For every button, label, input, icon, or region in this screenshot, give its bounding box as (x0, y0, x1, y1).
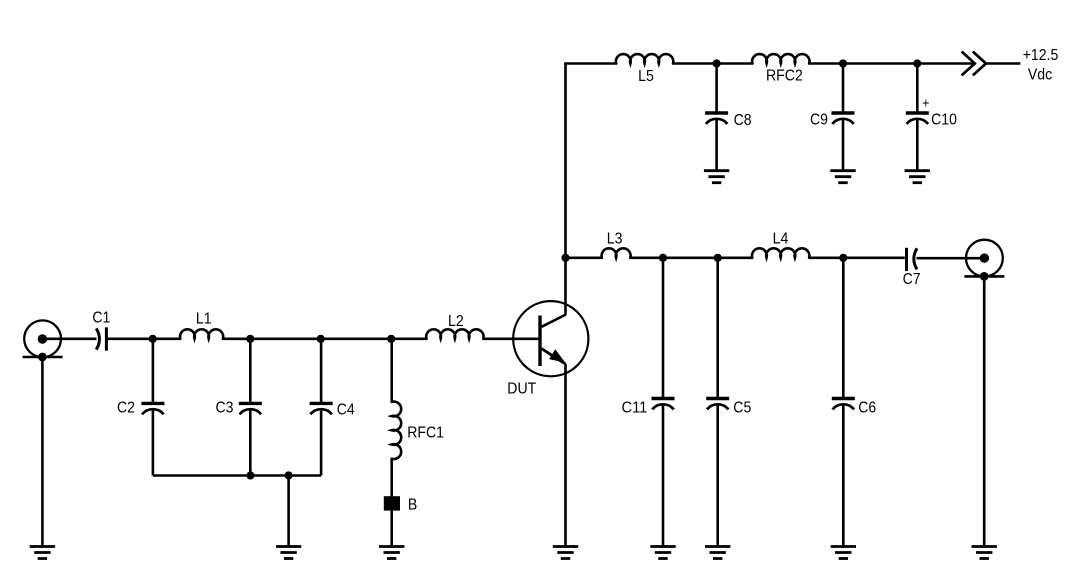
svg-text:C2: C2 (117, 400, 135, 417)
junction at J2 shell (980, 272, 989, 281)
junction at J1 shell (38, 353, 47, 362)
inductor RFC1 (392, 402, 401, 459)
wire chevron to label (986, 62, 1020, 65)
ground under J1 (30, 547, 55, 559)
capacitor C9 (832, 64, 855, 171)
capacitor C1 (96, 327, 106, 350)
ground under J2 (972, 547, 997, 559)
wire emitter down (564, 364, 567, 547)
node collector tap (561, 254, 569, 262)
svg-text:C1: C1 (92, 310, 110, 327)
capacitor C11 (652, 258, 675, 547)
svg-text:C9: C9 (810, 112, 828, 129)
svg-text:C5: C5 (733, 400, 751, 417)
wire tap to L3 (566, 256, 603, 259)
inductor L4 (752, 248, 809, 257)
ground under C6 (831, 547, 856, 559)
wire J1 to C1 (42, 337, 96, 340)
wire node to RFC1 (390, 339, 393, 402)
svg-text:+: + (922, 94, 929, 110)
junction bus to ground (285, 471, 293, 479)
svg-text:C10: C10 (931, 111, 957, 128)
ground under emitter (553, 547, 578, 559)
node at C2 top (149, 335, 157, 343)
node at C4 top (317, 335, 325, 343)
node at RFC1 top (387, 335, 395, 343)
wire RFC1 to bead (390, 459, 393, 497)
inductor L1 (180, 329, 223, 338)
node at C6 top (839, 254, 847, 262)
input connector J1 (23, 320, 63, 357)
transistor DUT (513, 301, 588, 376)
wire C7 to J2 (917, 257, 985, 260)
ground under C8 (704, 171, 729, 183)
capacitor C10 (906, 64, 929, 171)
wire J2 shell to ground (983, 276, 986, 546)
wire L4 to C7 (809, 256, 905, 259)
inductor L5 (616, 54, 673, 63)
wire top rail left (564, 62, 616, 65)
svg-text:RFC1: RFC1 (407, 425, 444, 442)
svg-text:C11: C11 (622, 400, 648, 417)
svg-text:RFC2: RFC2 (766, 67, 803, 84)
wire L2 to base (483, 337, 538, 340)
svg-text:L3: L3 (607, 231, 623, 248)
wire C1 to L1 (106, 337, 180, 340)
svg-text:C6: C6 (858, 400, 876, 417)
node at C3 top (246, 335, 254, 343)
svg-text:L5: L5 (638, 68, 654, 85)
inductor RFC2 (752, 54, 809, 63)
svg-text:Vdc: Vdc (1028, 66, 1052, 83)
output connector J2 (964, 240, 1004, 277)
capacitor C8 (705, 64, 728, 171)
ground under C5 (705, 547, 730, 559)
svg-text:C7: C7 (903, 271, 921, 288)
node at C5 top (714, 254, 722, 262)
wire L1 to L2 (223, 337, 427, 340)
node at C8 top (713, 59, 721, 67)
svg-text:+12.5: +12.5 (1023, 47, 1059, 64)
capacitor C7 (907, 248, 918, 271)
wire RFC2 to supply (809, 62, 973, 65)
wire bead to ground (390, 511, 393, 547)
ground under C11 (650, 547, 675, 559)
wire collector up (564, 64, 567, 315)
ground under bead (379, 547, 404, 559)
wire bus to ground (287, 476, 290, 547)
svg-text:B: B (408, 496, 417, 513)
ground under C10 (905, 171, 930, 183)
svg-text:DUT: DUT (507, 381, 536, 398)
node at C11 top (659, 254, 667, 262)
wire L5 to RFC2 (673, 62, 753, 65)
svg-text:C3: C3 (216, 400, 234, 417)
supply connector chevron (962, 52, 986, 76)
svg-text:C4: C4 (337, 401, 355, 418)
svg-text:L4: L4 (773, 231, 789, 248)
svg-text:C8: C8 (734, 112, 752, 129)
node at C9 top (839, 59, 847, 67)
capacitor C4 (310, 339, 333, 476)
capacitor C3 (239, 339, 262, 476)
bottom bus C2-C4 (153, 474, 321, 477)
svg-text:L1: L1 (196, 310, 212, 327)
ferrite bead B (384, 496, 400, 510)
wire L3 to L4 (631, 256, 753, 259)
capacitor C5 (706, 258, 729, 547)
junction C3 bottom (246, 471, 254, 479)
node at C10 top (913, 59, 921, 67)
ground under C9 (830, 171, 855, 183)
wire J1 shell to ground (41, 357, 44, 547)
inductor L2 (426, 329, 483, 338)
svg-text:L2: L2 (448, 313, 464, 330)
inductor L3 (602, 248, 631, 257)
capacitor C6 (832, 258, 855, 547)
capacitor C2 (141, 339, 164, 476)
ground under bus (276, 547, 301, 559)
